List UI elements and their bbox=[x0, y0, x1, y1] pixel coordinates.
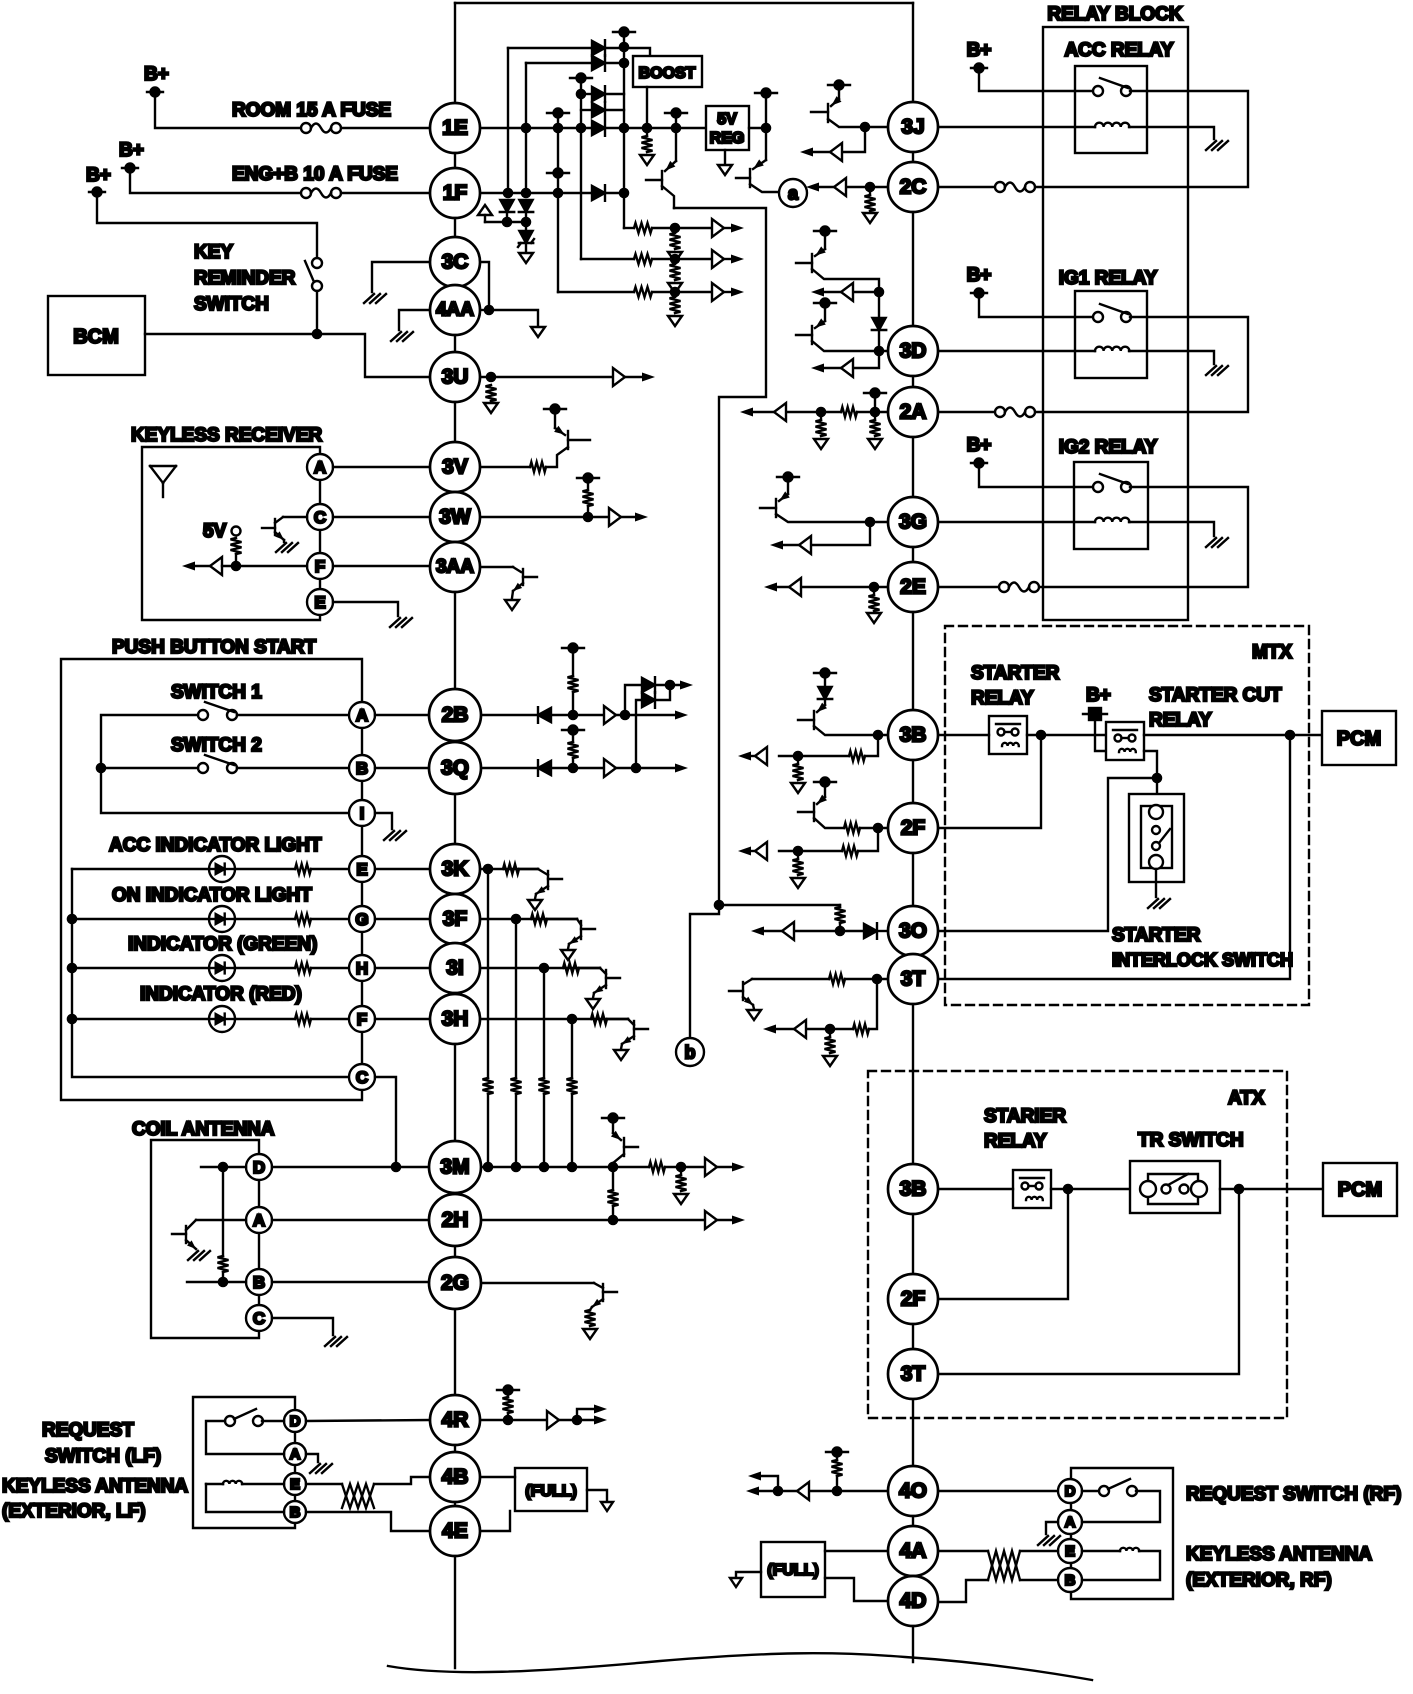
wire coupling to 4B bbox=[374, 1477, 428, 1484]
svg-text:INDICATOR (RED): INDICATOR (RED) bbox=[140, 984, 302, 1005]
svg-text:BOOST: BOOST bbox=[639, 65, 696, 82]
svg-text:3V: 3V bbox=[442, 456, 468, 479]
Q10 collector diagonal bbox=[186, 1220, 196, 1230]
Q12 collector diagonal bbox=[594, 1283, 603, 1288]
wire Q5 emitter bbox=[824, 303, 826, 321]
label INDICATOR (GREEN) bbox=[128, 934, 317, 955]
wire cut relay to PCM bbox=[1144, 734, 1322, 736]
connector 2H bbox=[429, 1194, 481, 1246]
box MTX dashed bbox=[945, 626, 1309, 1005]
wire latch lower to 3Q bbox=[636, 700, 642, 768]
wire 3Q res-row bbox=[572, 758, 574, 768]
Q14 emitter arrow bbox=[817, 703, 827, 712]
arrow 4R lower bbox=[594, 1415, 607, 1424]
arrow 2F bbox=[738, 846, 751, 855]
label MTX bbox=[1252, 642, 1292, 663]
supply tap 3J transistor bbox=[828, 81, 850, 90]
svg-text:(EXTERIOR, RF): (EXTERIOR, RF) bbox=[1186, 1570, 1332, 1591]
wire row 2 mid bbox=[652, 258, 712, 260]
connector 2A bbox=[888, 387, 938, 437]
junction 3T row bbox=[872, 974, 883, 985]
transistor Q13 (NPN) bbox=[742, 982, 744, 1000]
signal ground 3U bbox=[484, 403, 498, 413]
svg-text:ACC INDICATOR LIGHT: ACC INDICATOR LIGHT bbox=[109, 835, 322, 856]
label B+ IG1 relay bbox=[967, 265, 992, 286]
wire ATX PCM to 3T bbox=[938, 1189, 1239, 1374]
wire right bus bbox=[912, 3, 914, 1662]
label COIL ANTENNA bbox=[132, 1119, 275, 1140]
resistor 3B lower bbox=[849, 751, 865, 761]
buffer row 2 bbox=[712, 250, 724, 268]
Q6 emitter diagonal bbox=[779, 494, 788, 501]
transistor Q1 (PNP) bbox=[661, 171, 663, 189]
wire zener3 to ground bbox=[525, 243, 527, 252]
fuse ENG+B 10A bbox=[301, 188, 341, 198]
wire 2B latch upper bbox=[625, 685, 642, 715]
wire 4AA to ground bbox=[399, 310, 430, 330]
wire ATX relay out bbox=[1051, 1188, 1130, 1190]
svg-text:(EXTERIOR, LF): (EXTERIOR, LF) bbox=[2, 1501, 146, 1522]
svg-text:4AA: 4AA bbox=[436, 300, 474, 321]
wire 3B lower branch bbox=[865, 735, 878, 756]
diode 2B input bbox=[538, 707, 551, 723]
resistor 3U pulldown bbox=[486, 385, 497, 401]
arrow 3B bbox=[738, 751, 751, 760]
diode 1F row bbox=[592, 185, 605, 201]
label B+ MTX bbox=[1086, 685, 1111, 706]
ground 3C bbox=[364, 294, 386, 303]
junction switch2 left bbox=[96, 763, 107, 774]
pin G push button start bbox=[349, 906, 375, 932]
svg-text:SWITCH: SWITCH bbox=[194, 294, 269, 315]
junction interlock top bbox=[1152, 773, 1163, 784]
label ATX bbox=[1228, 1088, 1265, 1109]
wire LED rail bbox=[72, 869, 349, 1077]
resistor 3T lower bbox=[853, 1024, 869, 1034]
wire interlock to ground bbox=[1155, 869, 1157, 897]
svg-text:2C: 2C bbox=[900, 176, 927, 199]
wire BCM to junction bbox=[145, 333, 317, 335]
wire IG2 coil to ground bbox=[1129, 522, 1214, 536]
buffer 3O bbox=[782, 922, 794, 940]
resistor 3V row bbox=[530, 462, 546, 472]
svg-text:REMINDER: REMINDER bbox=[194, 268, 296, 289]
junction starter relay out bbox=[1036, 730, 1047, 741]
Q7 emitter diagonal bbox=[275, 532, 284, 540]
ground IG2 relay coil bbox=[1206, 538, 1228, 547]
junction 3T lower bbox=[825, 1024, 836, 1035]
wire E to 3K bbox=[375, 868, 430, 870]
label STARTER (interlock) bbox=[1112, 925, 1201, 946]
connector 3T bbox=[888, 954, 938, 1004]
resistor D-B link bbox=[218, 1256, 229, 1272]
wire 3O output bbox=[794, 930, 840, 932]
wire 2A output bbox=[746, 411, 774, 413]
Q9 collector diagonal bbox=[513, 567, 521, 572]
3H output collector diagonal bbox=[628, 1019, 634, 1025]
wire 3K output base stub bbox=[548, 878, 562, 880]
wire 3H row bbox=[480, 1018, 628, 1020]
wire 2B row bbox=[480, 714, 538, 716]
pin C push button start bbox=[349, 1064, 375, 1090]
svg-text:4E: 4E bbox=[442, 1520, 468, 1543]
svg-text:D: D bbox=[290, 1413, 301, 1430]
supply tap Q11 bbox=[602, 1114, 624, 1123]
switch IG1 relay contacts bbox=[1093, 304, 1131, 322]
wire Q2 base stub bbox=[736, 177, 750, 179]
junction 1E/5VREG x766 bbox=[761, 123, 772, 134]
wire 3Q mid bbox=[551, 767, 604, 769]
svg-text:5V: 5V bbox=[717, 111, 737, 128]
transistor 3I output (PNP mirrored) bbox=[605, 970, 607, 988]
svg-text:B: B bbox=[290, 1504, 301, 1521]
wire LED row H to pin bbox=[311, 967, 349, 969]
connector 4D bbox=[888, 1576, 938, 1626]
supply tap 3Q bbox=[562, 726, 584, 735]
svg-text:3U: 3U bbox=[442, 366, 469, 389]
wire 3O row bbox=[878, 930, 888, 932]
buffer 4O bbox=[797, 1482, 809, 1500]
diode row A bbox=[592, 40, 605, 56]
label RELAY (ATX relay) bbox=[984, 1131, 1047, 1152]
relay starter MTX bbox=[989, 716, 1027, 754]
wire Q9 base stub bbox=[523, 576, 537, 578]
connector 2G bbox=[429, 1257, 481, 1309]
junction 3Q out bbox=[631, 763, 642, 774]
svg-text:2B: 2B bbox=[442, 704, 469, 727]
wire 3J to ACC coil bbox=[938, 126, 1095, 128]
wire LED row E to pin bbox=[311, 868, 349, 870]
wire D to 3M bbox=[272, 1166, 430, 1168]
label INTERLOCK SWITCH bbox=[1112, 950, 1293, 970]
label KEYLESS ANTENNA RF bbox=[1186, 1544, 1372, 1565]
wire key reminder switch to junction bbox=[316, 291, 318, 334]
wire 3K output emitter stub bbox=[535, 894, 536, 899]
wire 2F res bbox=[797, 851, 799, 859]
wire 3M res bbox=[680, 1167, 682, 1175]
wire 3I output base stub bbox=[606, 977, 620, 979]
box BCM bbox=[48, 296, 145, 375]
label B+ (eng fuse) bbox=[119, 140, 144, 161]
power B+ IG2 relay bbox=[971, 459, 987, 468]
box TR switch outer bbox=[1130, 1161, 1220, 1213]
wire Q11 to 2H bbox=[612, 1167, 614, 1190]
supply tap 3W bbox=[577, 474, 599, 483]
signal ground 3B bbox=[791, 783, 805, 793]
wire 4AA to signal ground bbox=[489, 310, 538, 325]
wire 4O res-row bbox=[836, 1476, 838, 1491]
wire E RF to coil bbox=[1082, 1550, 1120, 1552]
junction 3H output bbox=[567, 1014, 578, 1025]
svg-text:3D: 3D bbox=[900, 340, 927, 363]
power B+ key reminder bbox=[89, 188, 105, 197]
wire 2F lower mid bbox=[779, 850, 842, 852]
svg-text:RELAY: RELAY bbox=[1149, 710, 1212, 731]
wire 3D lower output bbox=[853, 351, 879, 368]
supply tap diode matrix bbox=[613, 28, 635, 37]
wire 3T res bbox=[829, 1029, 831, 1037]
svg-text:B: B bbox=[253, 1273, 265, 1292]
wire diode row A bbox=[508, 47, 592, 49]
wire latch lower bbox=[655, 685, 670, 700]
wire 2H arrow bbox=[717, 1219, 738, 1221]
label STARIER (ATX relay) bbox=[984, 1106, 1066, 1127]
Q10 emitter arrow bbox=[187, 1240, 196, 1249]
Q4 emitter arrow bbox=[816, 246, 826, 255]
arrow 2C output bbox=[806, 182, 819, 191]
wire Q4 collector bbox=[812, 269, 879, 292]
wire FULL to ground LF bbox=[587, 1490, 607, 1500]
resistor 3H vertical bbox=[567, 1078, 578, 1094]
label ACC RELAY bbox=[1064, 40, 1173, 61]
svg-text:INDICATOR (GREEN): INDICATOR (GREEN) bbox=[128, 934, 317, 955]
transistor Q6 (PNP) bbox=[775, 499, 777, 517]
wire 4R fork upper bbox=[577, 1409, 600, 1420]
wire vertical net x558 bbox=[557, 113, 559, 292]
ground request LF A bbox=[310, 1464, 332, 1473]
wire 4R out bbox=[559, 1419, 600, 1421]
wire 3K vertical to 3M bbox=[487, 869, 489, 1078]
ground pin I bbox=[384, 831, 406, 840]
wire Q6 collector to 3G bbox=[776, 514, 888, 522]
junction 3M out bbox=[676, 1162, 687, 1173]
resistor 2F row bbox=[844, 823, 860, 833]
wire 3H output base stub bbox=[634, 1028, 648, 1030]
Q6 emitter arrow bbox=[780, 491, 790, 500]
connector 3J bbox=[888, 102, 938, 152]
wire Q3 base stub bbox=[811, 111, 828, 113]
svg-text:3G: 3G bbox=[899, 511, 927, 534]
connector 3B bbox=[888, 710, 938, 760]
wire D row stub bbox=[201, 1166, 246, 1168]
wire RF switch loop bbox=[1082, 1491, 1160, 1522]
junction 1E x624 bbox=[619, 123, 630, 134]
3F output emitter arrow bbox=[569, 936, 578, 944]
wire Q8 collector bbox=[546, 447, 568, 467]
svg-text:A: A bbox=[1065, 1514, 1076, 1531]
wire Q7 emitter stub bbox=[283, 540, 285, 542]
ground starter interlock bbox=[1148, 899, 1170, 908]
signal ground Q13 bbox=[747, 1010, 761, 1020]
wire Q9 emitter stub bbox=[512, 591, 513, 598]
diode row C bbox=[592, 86, 605, 102]
svg-text:1E: 1E bbox=[442, 117, 468, 140]
resistor row 1 bbox=[634, 223, 652, 233]
label RELAY BLOCK bbox=[1047, 4, 1182, 25]
transistor Q3 (PNP) bbox=[827, 104, 829, 122]
svg-text:B+: B+ bbox=[119, 140, 144, 161]
resistor 3M row bbox=[649, 1162, 665, 1172]
svg-text:A: A bbox=[356, 706, 368, 725]
wire Q15 emitter bbox=[824, 782, 826, 797]
wire FULL RF ground bbox=[736, 1572, 761, 1577]
wire 3F output base stub bbox=[581, 928, 595, 930]
wire vertical net x624 bbox=[623, 32, 625, 228]
svg-text:5V: 5V bbox=[203, 521, 227, 542]
resistor 3W pullup bbox=[583, 490, 594, 506]
zener D2 bbox=[519, 200, 533, 212]
switch TR contacts bbox=[1140, 1174, 1207, 1197]
svg-text:2G: 2G bbox=[441, 1272, 469, 1295]
wire 3I vertical lower bbox=[543, 1094, 545, 1167]
arrow 3J output bbox=[800, 147, 813, 156]
wire 4A to coupling bbox=[939, 1550, 988, 1552]
signal ground 4AA bbox=[531, 327, 545, 337]
label PUSH BUTTON START bbox=[112, 637, 316, 658]
diode Q14 bbox=[818, 687, 832, 699]
junction 3F on 3M row bbox=[511, 1162, 522, 1173]
svg-text:B+: B+ bbox=[967, 40, 992, 61]
wire Q5 collector to 3D bbox=[812, 341, 888, 351]
signal ground 3F output bbox=[561, 950, 575, 960]
svg-text:KEYLESS ANTENNA: KEYLESS ANTENNA bbox=[1186, 1544, 1372, 1565]
wire request LF switch to D bbox=[262, 1420, 284, 1422]
wire coupling to 4D bbox=[938, 1580, 988, 1602]
3H output emitter diagonal bbox=[622, 1036, 634, 1044]
3H output emitter arrow bbox=[622, 1036, 631, 1044]
svg-text:3J: 3J bbox=[901, 116, 924, 139]
Q15 emitter arrow bbox=[817, 795, 827, 804]
arrow 3D lower bbox=[811, 363, 824, 372]
connector 3U bbox=[430, 352, 480, 402]
wire 5VREG ground stub bbox=[724, 150, 726, 163]
Q5 emitter diagonal bbox=[815, 321, 825, 328]
wire Q8 emitter bbox=[554, 409, 556, 428]
wire LED row G to pin bbox=[311, 918, 349, 920]
wire starter relay out bbox=[1027, 734, 1106, 736]
junction 4O fork bbox=[773, 1486, 784, 1497]
wire LED row F to pin bbox=[311, 1018, 349, 1020]
wire B+ to IG2 switch bbox=[979, 463, 1093, 487]
arrow 3Q bbox=[675, 763, 688, 772]
svg-text:SWITCH 1: SWITCH 1 bbox=[171, 682, 262, 703]
svg-text:KEY: KEY bbox=[194, 242, 233, 263]
connector 3I bbox=[430, 943, 480, 993]
label ON INDICATOR LIGHT bbox=[112, 885, 312, 906]
junction 1E x558 bbox=[553, 123, 564, 134]
wire LED row G right bbox=[235, 918, 295, 920]
svg-text:4A: 4A bbox=[900, 1540, 927, 1563]
junction 1E x647 bbox=[642, 123, 653, 134]
ground ACC relay coil bbox=[1206, 141, 1228, 150]
resistor Q12 emitter bbox=[585, 1310, 596, 1326]
resistor row 2 pulldown bbox=[670, 264, 681, 280]
label REQUEST SWITCH (RF) bbox=[1186, 1484, 1401, 1505]
wire 2F lower branch bbox=[858, 828, 878, 851]
label B+ (room fuse) bbox=[144, 64, 169, 85]
wire 3F vertical to 3M bbox=[515, 919, 517, 1078]
svg-text:MTX: MTX bbox=[1252, 642, 1292, 663]
wire 3T row bbox=[845, 978, 888, 980]
buffer 2H bbox=[705, 1211, 717, 1229]
junction zener1 bottom bbox=[502, 217, 513, 228]
arrow latch upper bbox=[680, 680, 693, 689]
label INDICATOR (RED) bbox=[140, 984, 302, 1005]
signal ground Q9 bbox=[505, 600, 519, 610]
wire Q12 emitter stub bbox=[590, 1307, 592, 1310]
Q3 emitter diagonal bbox=[831, 99, 839, 106]
power B+ eng fuse bbox=[122, 164, 138, 173]
junction F row bbox=[231, 561, 242, 572]
wire 3F output emitter stub bbox=[568, 944, 569, 949]
node b bbox=[676, 1038, 704, 1066]
wire 2F row bbox=[860, 827, 888, 829]
svg-text:3W: 3W bbox=[439, 506, 471, 529]
svg-text:3T: 3T bbox=[901, 968, 926, 991]
wire Q3 collector to 3J bbox=[828, 119, 888, 127]
wire 4O to D bbox=[939, 1490, 1056, 1492]
supply tap 2B bbox=[562, 644, 584, 653]
svg-text:KEYLESS RECEIVER: KEYLESS RECEIVER bbox=[131, 425, 322, 446]
signal ground Q12 bbox=[583, 1329, 597, 1339]
junction 2A left bbox=[816, 407, 827, 418]
label (FULL) RF bbox=[767, 1562, 819, 1579]
wire row C to x624 bbox=[605, 93, 624, 95]
label BOOST bbox=[639, 65, 696, 82]
arrow 4O upper bbox=[748, 1471, 761, 1480]
label REG bbox=[710, 130, 745, 147]
label SWITCH bbox=[194, 294, 269, 315]
resistor LED G bbox=[295, 914, 311, 924]
wire 4B to FULL bbox=[478, 1476, 515, 1478]
wire Q15 base stub bbox=[798, 811, 814, 813]
wire I to ground bbox=[375, 813, 392, 829]
junction row B x624 bbox=[619, 58, 630, 69]
resistor 4R pullup bbox=[503, 1397, 514, 1413]
pin C keyless receiver bbox=[307, 504, 333, 530]
diode 3D net bbox=[872, 318, 886, 330]
signal ground 1E resistor bbox=[640, 155, 654, 165]
wire 2A row bbox=[857, 411, 888, 413]
wire LED row E bbox=[72, 868, 209, 870]
wire Q15 collector bbox=[814, 818, 844, 828]
resistor 5V pullup bbox=[231, 538, 242, 554]
wire Q1 emitter bbox=[675, 128, 677, 161]
wire coupling to E RF bbox=[1020, 1550, 1058, 1552]
svg-text:B+: B+ bbox=[144, 64, 169, 85]
junction b-line bbox=[714, 900, 725, 911]
wire 3I vertical to 3M bbox=[543, 968, 545, 1078]
wire 3K vertical lower bbox=[487, 1094, 489, 1167]
pin I push button start bbox=[349, 800, 375, 826]
junction row 1 bbox=[670, 223, 681, 234]
svg-text:3K: 3K bbox=[442, 858, 469, 881]
wire Q14 collector to 3B bbox=[814, 726, 888, 735]
junction 1F x508 bbox=[503, 188, 514, 199]
Q13 emitter arrow bbox=[744, 997, 753, 1005]
junction row 2 bbox=[670, 254, 681, 265]
signal ground 2E bbox=[867, 613, 881, 623]
Q7 emitter arrow bbox=[275, 531, 284, 540]
buffer 2A bbox=[774, 403, 786, 421]
wire 3O arrow bbox=[757, 930, 782, 932]
resistor 2C pulldown bbox=[865, 195, 876, 211]
label (EXTERIOR, RF) bbox=[1186, 1570, 1332, 1591]
box starter interlock outer bbox=[1129, 794, 1184, 882]
wire room fuse to 1E bbox=[341, 127, 430, 129]
switch request RF bbox=[1099, 1479, 1137, 1496]
wire 3T lower arrow bbox=[769, 1028, 794, 1030]
wire 3K row bbox=[480, 868, 538, 870]
junction B row bbox=[218, 1277, 229, 1288]
wire 4O out bbox=[752, 1490, 797, 1492]
Q8 emitter diagonal bbox=[555, 428, 565, 435]
ground Q10 bbox=[188, 1251, 210, 1260]
connector 4O bbox=[888, 1466, 938, 1516]
zener D1 bbox=[500, 200, 514, 212]
connector 2C bbox=[888, 162, 938, 212]
wire switch common to I bbox=[101, 768, 349, 813]
